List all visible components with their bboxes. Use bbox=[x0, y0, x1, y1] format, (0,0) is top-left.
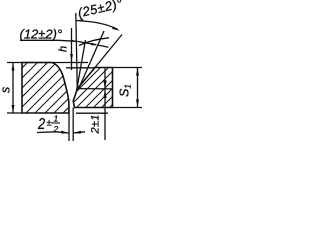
svg-text:2: 2 bbox=[37, 116, 45, 134]
12 deg dimension line + arrows bbox=[20, 40, 77, 41]
right plate outline bbox=[73, 68, 112, 108]
right plate top extension to the left (h ref 2) bbox=[66, 67, 95, 69]
gap dimension arrows bbox=[57, 132, 69, 133]
down arrow at knee ext bbox=[103, 81, 107, 89]
groove face extension (12 deg) bbox=[77, 40, 86, 91]
svg-text:2±1: 2±1 bbox=[90, 114, 102, 134]
fraction bar of gap tolerance label bbox=[52, 122, 61, 124]
top surface extension (left level, h ref) bbox=[7, 62, 88, 64]
internal dimension line x=105 bbox=[104, 69, 106, 141]
25 deg dimension arc bbox=[76, 21, 118, 30]
svg-text:±: ± bbox=[47, 118, 52, 129]
inner short arc bbox=[79, 38, 109, 46]
left plate outline bbox=[22, 63, 69, 114]
s dimension line bbox=[12, 63, 14, 113]
gap text underline/leader bbox=[37, 131, 57, 134]
svg-text:s: s bbox=[0, 87, 13, 93]
right plate top extension to the right (S1 ref) bbox=[113, 67, 143, 69]
left plate bottom extension left (s ref) bbox=[7, 112, 22, 114]
h dimension line with down arrow bbox=[71, 28, 73, 62]
svg-text:2: 2 bbox=[53, 124, 59, 134]
svg-text:h: h bbox=[58, 46, 70, 52]
svg-text:(12±2)°: (12±2)° bbox=[20, 27, 63, 42]
chamfer extension (25 deg) bbox=[95, 35, 122, 68]
svg-text:(25±2)°: (25±2)° bbox=[76, 0, 124, 20]
vertical reference line bbox=[76, 13, 78, 90]
up arrow at knee ext bbox=[103, 90, 107, 98]
right plate hatching bbox=[48, 55, 162, 120]
svg-text:S1: S1 bbox=[118, 84, 133, 97]
knee extension line inside right plate bbox=[78, 88, 113, 90]
root gap extension lines bbox=[68, 113, 70, 141]
S1 dimension line bbox=[137, 68, 139, 107]
left plate hatching bbox=[0, 40, 136, 125]
left bottom level extension right (2±1 ref) bbox=[76, 112, 108, 114]
svg-text:1: 1 bbox=[54, 114, 59, 124]
25 deg reference fan line bbox=[79, 31, 105, 89]
right plate bottom extension right (S1 ref) bbox=[113, 107, 143, 109]
